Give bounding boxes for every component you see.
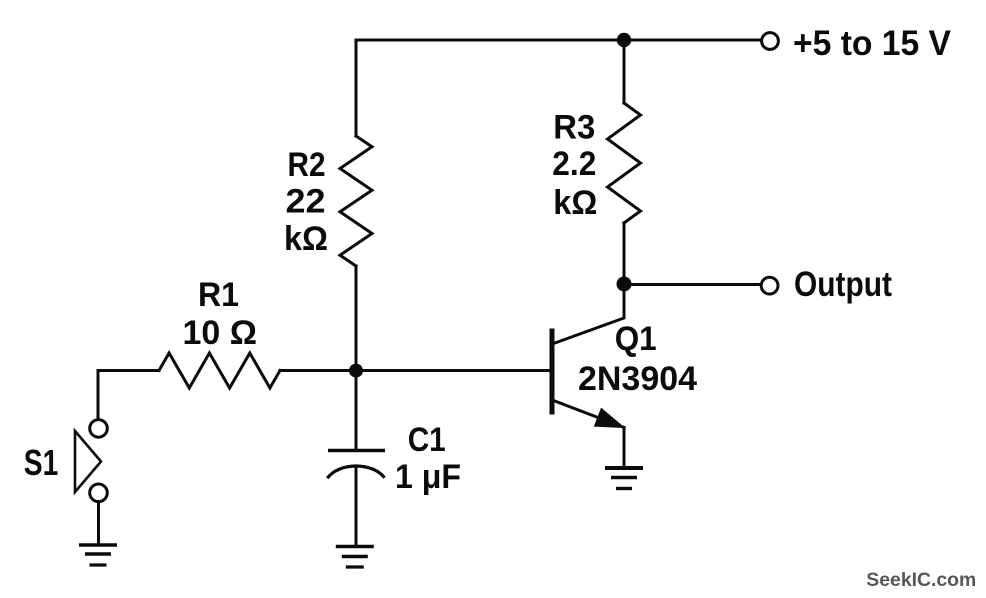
transistor Q1 emitter lead: [554, 401, 625, 428]
switch S1 actuator triangle: [75, 431, 101, 492]
wire output: [624, 283, 760, 286]
wire R2 bottom to base node: [355, 266, 358, 371]
terminal Output: [761, 277, 778, 294]
wire R1 to transistor base: [280, 369, 551, 372]
ground under S1: [79, 545, 117, 565]
svg-text:SeekIC.com: SeekIC.com: [866, 569, 976, 591]
node collector/output junction: [617, 277, 632, 292]
svg-text:R3: R3: [553, 109, 595, 147]
transistor Q1 base bar: [550, 329, 555, 415]
svg-text:R1: R1: [198, 276, 239, 314]
wire left branch upper: [355, 40, 358, 136]
transistor Q1 collector lead: [554, 283, 625, 344]
ground under Q1 emitter: [605, 468, 643, 489]
capacitor C1 curved plate: [327, 466, 384, 478]
capacitor C1 top plate: [328, 449, 385, 453]
svg-text:22: 22: [286, 183, 326, 221]
switch S1 bottom contact: [90, 484, 108, 502]
wire R3 bottom to collector node: [623, 223, 626, 283]
svg-text:kΩ: kΩ: [284, 220, 328, 258]
svg-text:2N3904: 2N3904: [578, 360, 697, 398]
svg-text:10 Ω: 10 Ω: [183, 314, 258, 352]
resistor R3: [608, 103, 641, 223]
svg-text:kΩ: kΩ: [553, 184, 597, 222]
transistor Q1 emitter arrow: [595, 409, 625, 428]
resistor R2: [340, 136, 372, 266]
wire C1 top: [355, 371, 358, 449]
node base junction: [349, 364, 363, 378]
wire right branch upper: [623, 40, 626, 103]
wire base rail: [98, 369, 159, 372]
wire top rail: [356, 39, 761, 42]
svg-text:2.2: 2.2: [552, 145, 596, 183]
svg-text:+5 to 15 V: +5 to 15 V: [793, 23, 951, 63]
svg-text:Q1: Q1: [615, 320, 657, 358]
svg-text:R2: R2: [288, 146, 326, 184]
svg-text:Output: Output: [794, 264, 892, 304]
svg-text:C1: C1: [408, 421, 446, 459]
svg-text:1 μF: 1 μF: [395, 458, 461, 496]
wire switch to ground: [97, 503, 100, 544]
terminal +V: [762, 33, 779, 50]
switch S1 top contact: [90, 420, 108, 438]
node V+ junction: [617, 33, 631, 47]
wire emitter to ground: [623, 428, 626, 467]
wire switch drop: [97, 371, 100, 420]
ground under C1: [336, 547, 374, 568]
wire C1 bottom to ground: [355, 468, 358, 545]
svg-text:S1: S1: [24, 442, 59, 483]
resistor R1: [159, 353, 280, 388]
